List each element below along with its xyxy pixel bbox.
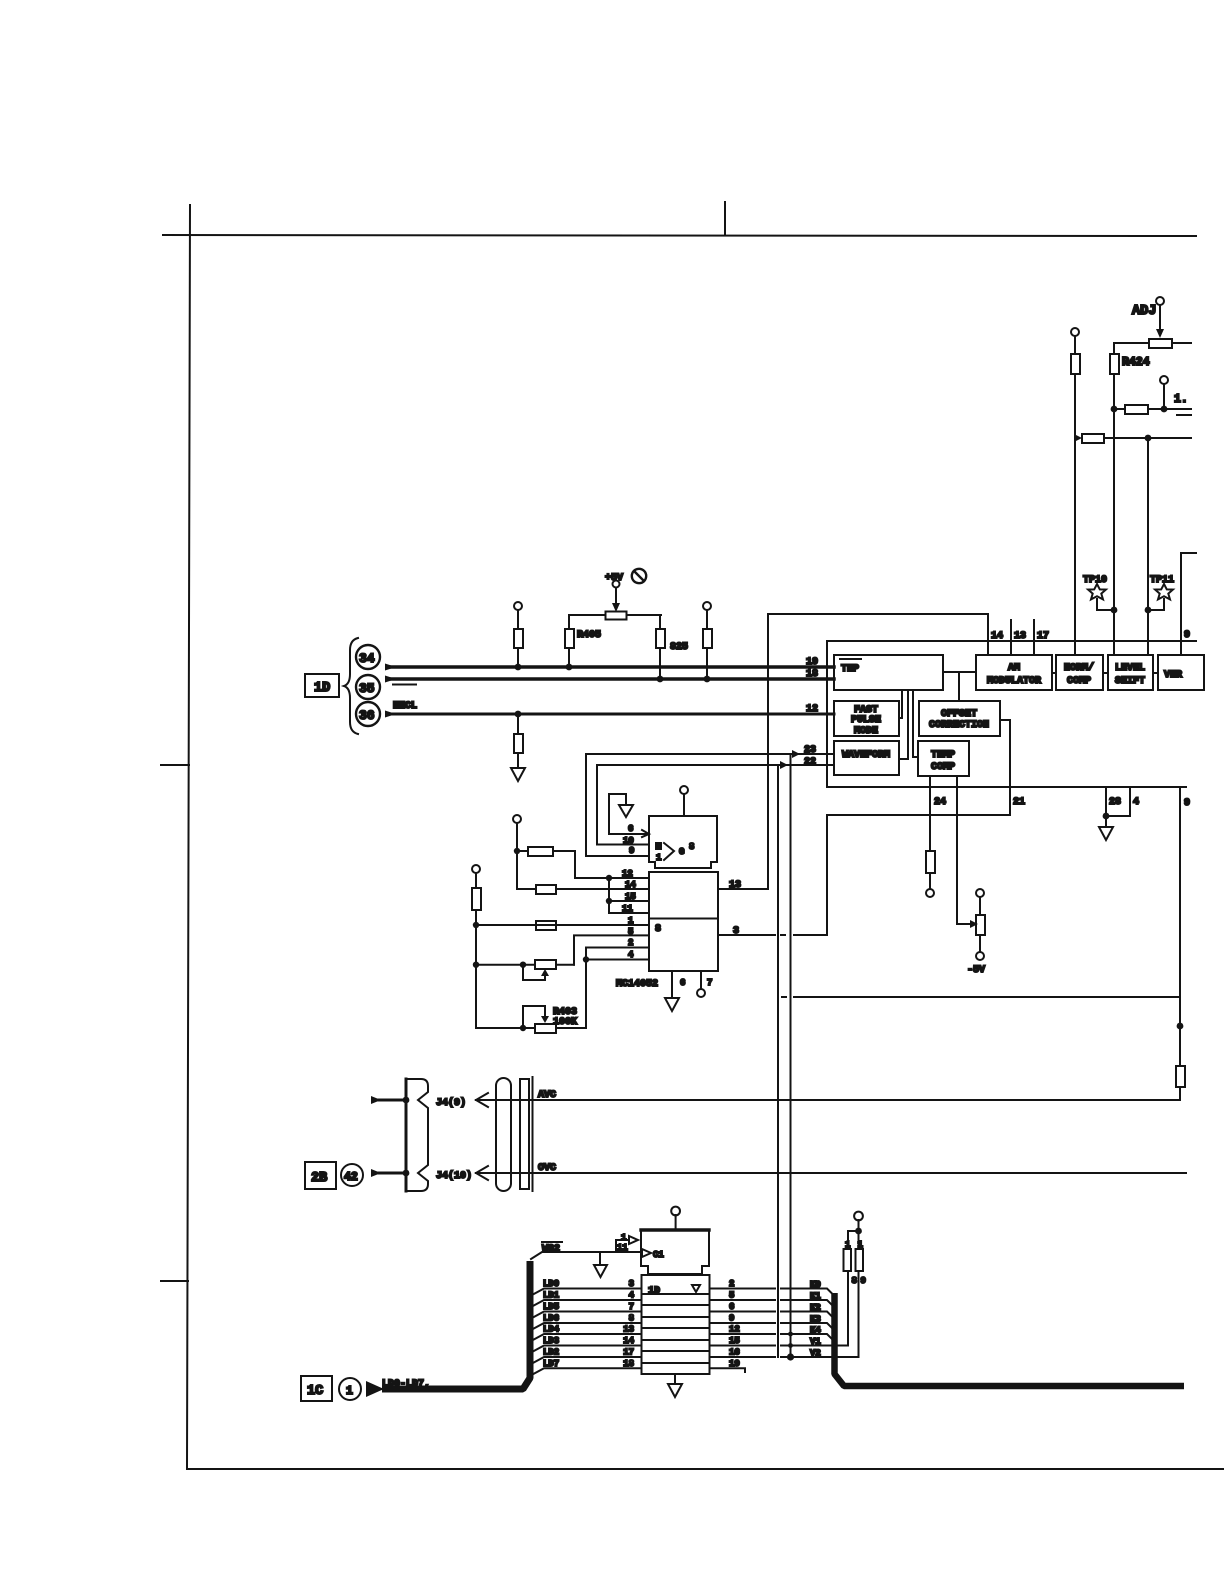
svg-text:16: 16 <box>729 1348 740 1358</box>
svg-text:R405: R405 <box>577 630 601 641</box>
svg-text:18: 18 <box>806 669 818 680</box>
page border bottom horizontal <box>187 1468 1224 1470</box>
connector J4 body <box>405 1079 408 1191</box>
wire 42 to J4(10) <box>371 1169 381 1177</box>
svg-text:1: 1 <box>656 853 662 863</box>
ground (EECL pulldown) <box>511 768 525 781</box>
svg-text:4: 4 <box>629 1291 635 1301</box>
block LEVEL SHIFT <box>1108 655 1153 690</box>
gate pin 6 wire with hook <box>609 833 649 835</box>
block NORM/COMP <box>1056 655 1103 690</box>
pin 23 wire into WAVEFORM <box>586 753 834 755</box>
page border left vertical <box>187 205 190 1469</box>
chip MC14052 body <box>649 872 718 971</box>
wire pot right <box>1172 342 1191 344</box>
resistor R424 <box>1110 354 1119 374</box>
node junction pin1 wire <box>473 922 479 928</box>
svg-text:10: 10 <box>623 836 634 846</box>
connector circle 42 <box>341 1164 363 1186</box>
resistor pullup on line 34 <box>517 648 519 667</box>
potentiometer -5V <box>976 889 984 897</box>
node junction y=438 <box>1145 435 1152 442</box>
gate symbol <box>655 842 662 850</box>
svg-text:17: 17 <box>623 1348 634 1358</box>
svg-text:EECL: EECL <box>393 701 417 712</box>
svg-text:K2: K2 <box>810 1303 821 1313</box>
svg-text:CORRECTION: CORRECTION <box>929 720 989 731</box>
terminal left column <box>472 865 480 873</box>
svg-text:LD5: LD5 <box>543 1302 559 1312</box>
terminal ADJ <box>1156 297 1164 305</box>
ground (latch) <box>674 1374 676 1384</box>
border tick top at x=725 <box>724 202 726 235</box>
svg-text:1: 1 <box>621 1233 627 1243</box>
dash mark under line 35 <box>393 684 416 686</box>
wire AVC <box>476 1099 1180 1101</box>
pins 28 and 4 tied to ground <box>1106 787 1130 816</box>
connector circle 35 <box>356 675 380 699</box>
svg-text:825: 825 <box>670 642 688 653</box>
wire left column down <box>475 925 477 1028</box>
svg-text:NORM/: NORM/ <box>1064 662 1094 674</box>
wire TNP to AM MODULATOR <box>943 671 976 673</box>
main IC block top edge <box>827 640 1196 642</box>
resistor Rb <box>536 885 556 894</box>
resistor 825 <box>659 615 661 629</box>
svg-text:1: 1 <box>845 1240 851 1250</box>
svg-text:-5V: -5V <box>967 965 985 976</box>
svg-text:28: 28 <box>1109 797 1121 808</box>
svg-text:ADJ: ADJ <box>1132 304 1156 319</box>
pin 5 wire from pot Rd <box>574 935 649 964</box>
wire TNP to FAST PULSE MODE <box>899 690 902 718</box>
svg-text:V1: V1 <box>810 1337 821 1347</box>
svg-text:36: 36 <box>359 708 375 723</box>
wire to J4(9) <box>371 1096 381 1104</box>
arrowhead on AVC line <box>476 1093 488 1107</box>
svg-text:C1: C1 <box>653 1250 664 1260</box>
svg-text:3: 3 <box>629 1279 634 1289</box>
output K2 <box>710 1311 776 1313</box>
wiper hook of R403 <box>541 1016 549 1023</box>
svg-text:V2: V2 <box>810 1349 821 1359</box>
svg-text:LD7: LD7 <box>543 1359 559 1369</box>
svg-text:11: 11 <box>617 1243 628 1253</box>
wire AM MOD to NORM/COMP <box>1052 672 1056 674</box>
sheet ref box 1C <box>301 1376 332 1401</box>
resistor Ra <box>528 847 553 856</box>
svg-text:K1: K1 <box>810 1292 821 1302</box>
pin 14 loop wire from MC14052 pin 13 <box>768 614 988 889</box>
wire pot left to R424 <box>1114 343 1149 354</box>
node junction EECL pulldown <box>515 711 522 718</box>
bus fan-out LD7 <box>531 1368 642 1375</box>
wire arrow into resistor row y=438 <box>1074 434 1082 442</box>
connector circle 36 <box>356 702 380 726</box>
svg-text:35: 35 <box>359 681 375 696</box>
svg-text:7: 7 <box>629 1302 634 1312</box>
clock input symbol C1 <box>642 1249 651 1257</box>
latch internal dividers <box>642 1293 710 1295</box>
wire R424 to junction <box>1113 374 1115 409</box>
resistor pullup x=707 <box>703 602 711 610</box>
pin 9 wire down right side <box>1179 787 1181 1066</box>
pin 1 wire <box>476 924 649 926</box>
svg-text:15: 15 <box>625 892 636 902</box>
node junction J4(10) <box>403 1170 410 1177</box>
sheet ref box 2B <box>305 1162 336 1189</box>
svg-text:18: 18 <box>623 1359 634 1369</box>
cable bracket <box>520 1079 529 1189</box>
block VERT (clipped) <box>1158 655 1204 690</box>
output K4 <box>710 1333 776 1335</box>
svg-text:AM: AM <box>1008 663 1020 674</box>
ground (WS2) <box>599 1252 601 1265</box>
resistor Rc on pin 1 wire <box>536 921 556 930</box>
node junction on line 34 <box>515 664 522 671</box>
pin 14 wire <box>556 888 649 890</box>
node junction pin12 wire <box>606 875 612 881</box>
ground (gate hook) <box>625 794 627 805</box>
svg-text:LD4: LD4 <box>543 1325 560 1335</box>
svg-text:9: 9 <box>729 1314 734 1324</box>
svg-text:LD0: LD0 <box>543 1279 559 1289</box>
main IC block bottom edge <box>827 786 1186 788</box>
svg-text:24: 24 <box>934 797 946 808</box>
svg-text:9: 9 <box>1184 630 1190 641</box>
svg-text:6: 6 <box>680 978 685 988</box>
output K1 <box>710 1299 776 1301</box>
resistor (horizontal, y=438) <box>1082 434 1104 443</box>
svg-text:1: 1 <box>628 916 634 926</box>
pin 13 stub <box>1010 620 1012 655</box>
bracket for 1D group <box>344 638 358 734</box>
resistor pull-up right (pin 9) <box>858 1231 860 1249</box>
block OFFSET CORRECTION <box>919 701 1000 736</box>
wire x=1114 down to TP10 node and LEVEL SHIFT <box>1113 409 1115 655</box>
svg-text:9: 9 <box>1184 798 1190 809</box>
block AM MODULATOR <box>976 655 1052 690</box>
wire signal 35 to pin 18 <box>385 676 396 683</box>
svg-text:1D: 1D <box>648 1286 660 1297</box>
wire branch to OFFSET CORRECTION <box>958 672 960 701</box>
svg-text:MODULATOR: MODULATOR <box>987 676 1041 687</box>
pin 17 stub <box>1033 620 1035 655</box>
node junction R424 bottom <box>1111 406 1118 413</box>
svg-text:3: 3 <box>733 926 739 937</box>
svg-text:8: 8 <box>655 924 661 935</box>
pin 15 wire <box>609 900 649 902</box>
wire LEVEL SHIFT to VERT <box>1153 672 1158 674</box>
svg-text:21: 21 <box>1013 797 1025 808</box>
long horizontal wire y=997 <box>782 996 786 998</box>
svg-text:PULSE: PULSE <box>851 715 881 726</box>
node junction TP10 <box>1111 607 1118 614</box>
svg-text:14: 14 <box>623 1336 634 1346</box>
svg-text:2B: 2B <box>311 1171 327 1186</box>
svg-text:MC14052: MC14052 <box>616 979 658 990</box>
svg-text:K0: K0 <box>810 1280 821 1290</box>
output V1 <box>710 1345 776 1347</box>
svg-text:19: 19 <box>806 657 818 668</box>
terminal 1. <box>1163 384 1165 409</box>
border tick left at y=765 <box>161 764 189 766</box>
node junction V2 / pin23 net <box>787 1353 794 1360</box>
wire corner bracket to VERT pin 9 <box>1181 553 1196 655</box>
svg-text:1C: 1C <box>307 1384 323 1399</box>
pin 22 wire into WAVEFORM <box>597 764 834 766</box>
svg-text:8: 8 <box>852 1276 857 1286</box>
svg-text:J4(10): J4(10) <box>436 1170 472 1182</box>
node junction pin2/pin4 <box>583 956 589 962</box>
svg-text:34: 34 <box>359 651 375 666</box>
svg-text:TP11: TP11 <box>1150 575 1174 586</box>
bus fan-out LD6 <box>531 1323 642 1330</box>
svg-text:2: 2 <box>628 938 633 948</box>
svg-text:15: 15 <box>729 1336 740 1346</box>
border tick left at y=1281 <box>161 1280 188 1282</box>
block FAST PULSE MODE <box>834 701 899 736</box>
bus fan-out LD1 <box>531 1300 642 1307</box>
wire TP10 to node <box>1097 599 1114 610</box>
svg-text:13: 13 <box>729 880 741 891</box>
svg-text:1D: 1D <box>314 681 330 696</box>
terminal above pull resistors <box>854 1212 863 1221</box>
svg-text:LD3: LD3 <box>543 1336 559 1346</box>
svg-text:J4(9): J4(9) <box>436 1097 466 1109</box>
pin wire to -5V pot <box>957 776 970 924</box>
svg-text:14: 14 <box>625 880 636 890</box>
terminal above C1 <box>671 1207 680 1216</box>
wire left column down to NORM/COMP <box>1074 374 1076 655</box>
pin 24 wire and resistor <box>929 776 931 851</box>
potentiometer on +5V bracket <box>606 612 627 620</box>
svg-text:G: G <box>679 847 684 857</box>
resistor EECL pulldown <box>517 714 519 734</box>
chip pin 7 open <box>700 971 702 989</box>
bus fan-out LD5 <box>531 1312 642 1319</box>
node junction at resistor Ra <box>514 848 520 854</box>
bus fan-out LD3 <box>531 1346 642 1353</box>
terminal (left column) <box>1071 328 1079 336</box>
svg-text:MODE: MODE <box>854 726 878 737</box>
svg-text:OFFSET: OFFSET <box>941 709 977 720</box>
output K3 <box>710 1322 776 1324</box>
no-connect screw symbol <box>632 569 646 583</box>
bus fan-out LD4 <box>531 1334 642 1341</box>
svg-text:TEMP: TEMP <box>931 750 955 761</box>
svg-text:WAVEFORM: WAVEFORM <box>842 750 890 761</box>
wire signal 34 to pin 19 <box>385 664 396 671</box>
connector circle 1 <box>339 1378 361 1400</box>
potentiometer R403 100K <box>535 1024 556 1033</box>
resistor pull-up left (pin 8) <box>848 1231 859 1249</box>
svg-text:8: 8 <box>629 1314 634 1324</box>
svg-text:8: 8 <box>689 842 694 852</box>
svg-text:11: 11 <box>622 904 633 914</box>
connector circle 34 <box>356 645 380 669</box>
svg-text:42: 42 <box>344 1171 358 1184</box>
chip C1 body <box>641 1230 709 1274</box>
output pin 19 stub <box>710 1368 746 1372</box>
chip ground pin 6 <box>671 971 673 998</box>
output K0 <box>710 1288 776 1290</box>
potentiometer (ADJ pot) body <box>1149 339 1172 348</box>
svg-text:13: 13 <box>623 1325 634 1335</box>
potentiometer Rd <box>476 964 535 966</box>
svg-text:14: 14 <box>991 631 1003 642</box>
long vertical wire (pin 23 net) <box>790 754 792 1357</box>
svg-text:9: 9 <box>861 1276 866 1286</box>
svg-text:SHIFT: SHIFT <box>1115 676 1145 687</box>
resistor on pin9/AVC wire <box>1176 1066 1185 1087</box>
wiper hook of Rd <box>541 969 549 976</box>
sheet ref box 1D <box>305 674 339 697</box>
latch mode triangle <box>692 1285 700 1292</box>
wire NORM/COMP to LEVEL SHIFT <box>1103 672 1108 674</box>
node junction TP11 <box>1145 607 1152 614</box>
svg-text:1: 1 <box>346 1385 353 1398</box>
svg-text:4: 4 <box>628 950 634 960</box>
wire branch x=609 <box>608 878 610 913</box>
output V2 <box>710 1356 776 1358</box>
cable capsule <box>496 1078 511 1191</box>
svg-text:VER: VER <box>1164 670 1182 681</box>
node junction J4(9) <box>403 1097 410 1104</box>
wire TNP to TEMP COMP <box>913 690 918 757</box>
svg-text:12: 12 <box>806 704 818 715</box>
svg-text:K3: K3 <box>810 1315 821 1325</box>
resistor (vertical, unlabeled left column) <box>1071 354 1080 374</box>
block WAVEFORM <box>834 741 899 775</box>
latch chip 1D body <box>642 1275 710 1374</box>
node junction on pin9 wire <box>1177 1023 1184 1030</box>
ground (pins 28/4) <box>1105 816 1107 827</box>
svg-text:13: 13 <box>1014 631 1026 642</box>
pin 11 wire <box>609 912 649 914</box>
resistor (horizontal, unlabeled) <box>1125 405 1148 414</box>
wire OVC <box>476 1172 1186 1174</box>
pin 12 wire <box>575 877 649 879</box>
pin 4 wire <box>586 959 649 961</box>
svg-text:LD2: LD2 <box>543 1348 559 1358</box>
svg-text:4: 4 <box>1133 797 1139 808</box>
output 3 wire to pin 21 <box>718 934 775 936</box>
pin 2 wire <box>586 947 649 949</box>
svg-text:19: 19 <box>729 1359 740 1369</box>
svg-text:12: 12 <box>729 1325 740 1335</box>
svg-text:6: 6 <box>628 824 633 834</box>
svg-text:9: 9 <box>629 846 634 856</box>
svg-text:7: 7 <box>707 978 712 988</box>
wire WS2 <box>531 1252 641 1259</box>
svg-text:2: 2 <box>729 1279 734 1289</box>
pin 1 branch with arrowhead <box>616 1240 629 1252</box>
bus LD0-LD7 thick horizontal <box>366 1381 384 1397</box>
bus fan-out LD2 <box>531 1357 642 1364</box>
block TEMP COMP <box>918 741 969 776</box>
svg-text:23: 23 <box>804 745 816 756</box>
svg-text:LD6: LD6 <box>543 1314 559 1324</box>
svg-text:12: 12 <box>622 869 633 879</box>
output 13 wire <box>718 888 768 890</box>
svg-text:22: 22 <box>804 757 816 768</box>
svg-text:R424: R424 <box>1122 356 1150 369</box>
svg-text:100K: 100K <box>553 1017 577 1028</box>
bus fan-out LD0 <box>531 1289 642 1296</box>
terminal above gate <box>680 786 688 794</box>
svg-text:TNP: TNP <box>841 664 859 675</box>
svg-text:LEVEL: LEVEL <box>1115 663 1145 674</box>
svg-text:WS2: WS2 <box>542 1244 560 1255</box>
svg-text:LD1: LD1 <box>543 1291 560 1301</box>
pin 21 wire from OFFSET CORRECTION to MC14052 pin 3 <box>827 720 1010 935</box>
main IC block left edge <box>826 641 828 787</box>
wire TNP to WAVEFORM <box>899 690 908 759</box>
page border top horizontal <box>163 235 1196 236</box>
svg-text:5: 5 <box>729 1291 734 1301</box>
svg-text:COMP: COMP <box>1067 676 1091 687</box>
svg-text:COMP: COMP <box>931 762 955 773</box>
svg-text:K4: K4 <box>810 1326 821 1336</box>
arrowhead on OVC line <box>476 1166 488 1180</box>
output bus thick bend <box>835 1293 1185 1386</box>
node junction at 1.x terminal <box>1161 406 1168 413</box>
long vertical wire (pin 22 net) <box>777 765 779 1357</box>
block TNP <box>834 655 943 690</box>
wire x=1148 down to TP11 node and LEVEL SHIFT <box>1147 438 1149 655</box>
wire TP11 to node <box>1148 599 1164 610</box>
wire pin22 loop left leg <box>597 765 649 845</box>
wire pin23 loop left leg <box>586 754 649 856</box>
terminal above line-34 resistor <box>514 602 522 610</box>
resistor R405 <box>565 629 574 648</box>
clipped component at page edge <box>1164 408 1191 410</box>
svg-text:17: 17 <box>1037 631 1049 642</box>
resistor Rv vertical <box>472 888 481 910</box>
svg-text:6: 6 <box>729 1302 734 1312</box>
terminal upper-left chain <box>513 815 521 823</box>
gate section of MC14052 <box>649 816 717 868</box>
svg-text:TP10: TP10 <box>1083 575 1107 586</box>
svg-text:1.: 1. <box>1174 393 1188 406</box>
wire signal 36 EECL to pin 12 <box>385 711 396 718</box>
svg-text:5: 5 <box>628 927 633 937</box>
svg-text:1: 1 <box>858 1240 864 1250</box>
